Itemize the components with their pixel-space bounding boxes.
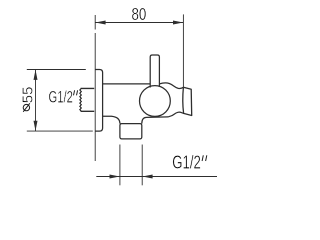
inch ticks left label — [74, 90, 78, 95]
holder lip (crescent) — [183, 87, 192, 115]
node dim-80 left extension tick — [94, 15, 96, 30]
diameter symbol of dia55 label — [23, 103, 30, 112]
svg-text:55: 55 — [20, 87, 37, 104]
inch ticks bottom label — [202, 155, 207, 161]
wire dia55 top extension line — [27, 69, 86, 71]
arrow dia55 top — [34, 70, 38, 80]
svg-text:G1/2: G1/2 — [172, 153, 201, 173]
arrow dim-80 right — [173, 21, 183, 25]
ball joint circle — [140, 86, 171, 117]
arrow bottom dim right (points left) — [142, 175, 152, 179]
wire dia55 bottom extension line — [27, 130, 93, 132]
stem on top of ball — [150, 55, 159, 88]
arrow bottom dim left (points right) — [110, 175, 120, 179]
wire dim-80 line — [95, 22, 183, 24]
wire bottom left extension line — [119, 145, 121, 186]
outlet right fillet up to under-ball line — [142, 117, 147, 123]
outlet elbow body (rect) — [120, 124, 142, 139]
holder hook top wavy edge — [159, 83, 183, 89]
threaded inlet nipple G1/2 — [81, 88, 95, 111]
svg-text:80: 80 — [132, 4, 147, 24]
svg-text:G1/2: G1/2 — [49, 88, 73, 106]
body arm bottom edge with fillet to outlet — [103, 116, 120, 123]
arrow dim-80 left — [95, 21, 105, 25]
wire bottom right extension line — [141, 145, 143, 186]
under-ball bottom line — [147, 116, 169, 119]
holder hook bottom wavy edge — [168, 112, 184, 117]
wire wall line — [94, 33, 96, 161]
flange (wall plate side view, dia 55) — [95, 70, 102, 132]
node dim-80 right extension line — [182, 14, 184, 87]
arrow dia55 bottom — [34, 121, 38, 131]
wire dia55 dimension line — [35, 70, 37, 132]
wire bottom dim line — [96, 176, 217, 178]
thread zigzag edge — [80, 88, 82, 111]
body arm top edge — [103, 83, 151, 85]
